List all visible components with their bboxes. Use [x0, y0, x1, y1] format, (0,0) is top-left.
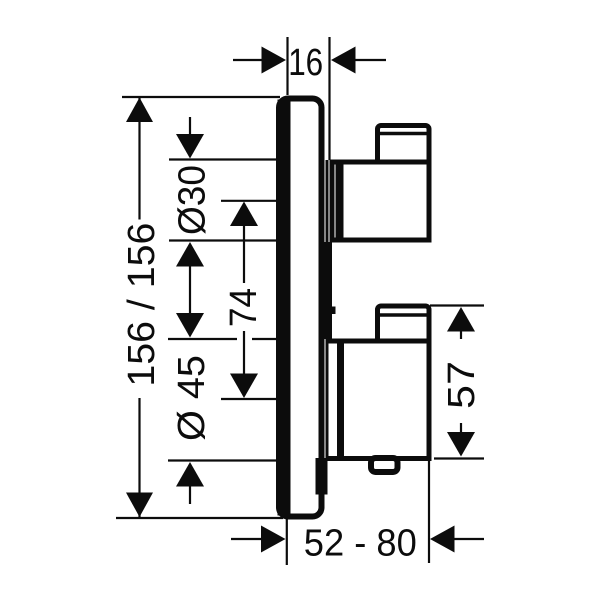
extension line 57 bottom: [434, 457, 484, 459]
extension line knob1 center (74 top): [221, 200, 277, 202]
arrow 74 bottom (down): [230, 374, 258, 399]
extension line knob1 bottom: [169, 239, 277, 241]
svg-text:52 - 80: 52 - 80: [304, 523, 417, 565]
arrow 52-80 left (right-pointing): [261, 526, 286, 553]
arrow 57 top (up): [447, 307, 475, 332]
dimension line diam45 tail below: [189, 486, 191, 504]
extension line 52-80 right: [428, 454, 430, 563]
extension line knob1 top: [169, 158, 277, 160]
knob 1 face line: [336, 160, 344, 242]
dimension line 16 at top: [233, 59, 263, 61]
arrow 16 left (right-pointing): [262, 47, 287, 74]
knob 2 (lower, diam45) body fill: [330, 341, 430, 459]
arrow 156 top: [126, 98, 153, 123]
extension line knob2 top: [168, 338, 237, 340]
arrow diam30 top (down): [176, 134, 204, 159]
extension line top (156 top / plate top): [122, 96, 280, 98]
svg-text:16: 16: [288, 42, 323, 84]
arrow 156 bottom: [126, 493, 153, 518]
escutcheon plate outline: [279, 99, 322, 517]
extension line 16 right: [328, 37, 330, 160]
extension line knob2 bottom: [168, 459, 277, 461]
handle lever 2 inner line: [377, 313, 428, 317]
dimension line 52-80: [231, 538, 262, 540]
sleeve line: [326, 160, 329, 459]
dimension line 156/156: [138, 98, 140, 220]
knob 2 bottom edge: [326, 456, 432, 461]
svg-text:156 / 156: 156 / 156: [121, 223, 163, 387]
svg-text:Ø 45: Ø 45: [171, 355, 213, 441]
arrow 57 bottom (down): [447, 432, 475, 457]
knob 2 top edge: [326, 339, 432, 344]
collar below lower knob: [316, 458, 328, 495]
arrow 16 right (left-pointing): [331, 47, 356, 74]
dimension line 74: [243, 224, 245, 283]
arrow diam45 bottom (up): [176, 462, 204, 487]
dimension line 57: [460, 331, 462, 339]
sleeve bump: [331, 307, 336, 315]
handle lever 2 (lower): [378, 306, 430, 344]
handle lever 1 (upper): [378, 126, 430, 166]
svg-text:Ø30: Ø30: [172, 165, 214, 235]
svg-text:74: 74: [223, 288, 265, 327]
sleeve between knobs: [323, 242, 333, 339]
dimension line between diam30 bottom and diam45 top: [189, 264, 191, 315]
extension line bottom (156 bottom / plate bottom): [116, 517, 283, 519]
extension line knob2 center (74 bottom): [221, 398, 277, 400]
extension line 16 left: [286, 37, 288, 95]
arrow diam45 top (down): [176, 313, 204, 338]
extension line 57 top: [430, 304, 484, 306]
arrow 52-80 right (left-pointing): [430, 526, 455, 553]
knob 2 right edge: [427, 339, 432, 462]
handle lever 1 inner line: [377, 132, 428, 136]
safety tab below knob 2: [371, 458, 398, 472]
escutcheon plate left slab: [278, 100, 291, 516]
dimension line diam30 tail above: [189, 117, 191, 136]
knob 2 face line: [337, 339, 344, 462]
extension line 52-80 left: [286, 519, 288, 565]
arrow diam30 bottom (up): [176, 242, 204, 267]
svg-text:57: 57: [441, 361, 483, 409]
arrow 74 top (up): [230, 202, 258, 227]
knob 1 (upper, diam30) body: [332, 162, 429, 240]
